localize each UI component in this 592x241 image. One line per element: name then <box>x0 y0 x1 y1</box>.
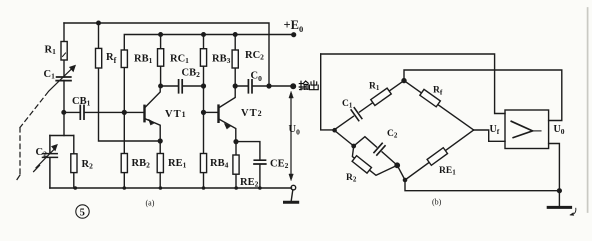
wire: bridge SW side lower (R2 branch) <box>352 146 397 175</box>
svg-text:RB2: RB2 <box>132 158 151 170</box>
ground (circuit a) <box>291 190 293 201</box>
svg-text:+E0: +E0 <box>284 18 304 34</box>
resistor Rf <box>96 48 102 68</box>
svg-text:RB4: RB4 <box>210 158 229 170</box>
arrow U0 (circuit a) <box>290 96 292 176</box>
svg-text:C1: C1 <box>342 99 353 110</box>
node: bridge top <box>402 79 406 83</box>
label 输出 output (drawn glyphs) <box>299 81 318 90</box>
resistor R1 (bridge) <box>371 88 391 105</box>
node: bridge bottom <box>403 178 406 181</box>
node: RC2 top <box>233 33 237 37</box>
node: CB2-RB3 junction <box>202 84 206 88</box>
svg-text:RB3: RB3 <box>212 54 231 66</box>
capacitor CB1 <box>80 106 84 120</box>
resistor Rf (bridge) <box>420 89 440 106</box>
node: VT2 base junction <box>202 111 206 115</box>
svg-text:RC2: RC2 <box>245 50 264 62</box>
wire: CB1 input line <box>64 111 144 113</box>
svg-text:Uf: Uf <box>490 124 500 136</box>
resistor R1 <box>61 42 67 61</box>
wire: RC1 collector branch <box>160 35 162 87</box>
wire: feedback top rail (circuit a) <box>64 23 269 85</box>
resistor RE2 <box>235 142 237 188</box>
capacitor CB2 <box>179 80 183 93</box>
svg-text:C1: C1 <box>44 69 56 81</box>
wire: RB3-RB4 chain <box>203 35 205 189</box>
svg-text:Rf: Rf <box>433 86 443 97</box>
wire: RC2 branch <box>234 35 236 87</box>
node: VT1 collector node <box>159 84 163 88</box>
wire: circuit b bottom rail <box>405 144 559 191</box>
node: bridge left <box>333 129 336 132</box>
capacitor C2 (bridge) <box>373 142 387 156</box>
svg-text:R2: R2 <box>346 173 357 184</box>
svg-text:C2: C2 <box>387 129 398 140</box>
node: R2C2 fork <box>352 144 355 147</box>
svg-text:Rf: Rf <box>106 52 117 65</box>
capacitor CE2 <box>236 142 260 188</box>
ground (circuit b) <box>558 191 560 207</box>
transistor VT2 <box>219 86 235 107</box>
resistor RC1 <box>158 49 164 66</box>
svg-text:C2: C2 <box>36 147 48 159</box>
svg-text:CB1: CB1 <box>72 96 91 108</box>
node: +E0 terminal <box>292 33 296 37</box>
svg-text:R1: R1 <box>369 82 380 93</box>
svg-text:U0: U0 <box>554 124 565 136</box>
resistor R2 (bridge) <box>352 156 371 173</box>
wire: bridge SW side upper (C2 branch) <box>334 130 397 165</box>
node: VT1 base junction <box>122 111 126 115</box>
node: RC1 top <box>159 33 163 37</box>
resistor RB1 <box>121 50 127 68</box>
wire: bridge NW side <box>334 81 404 130</box>
svg-text:CE2: CE2 <box>270 159 289 171</box>
svg-text:RE2: RE2 <box>240 177 259 189</box>
capacitor C1 (variable) <box>56 77 71 81</box>
transistor VT1 <box>145 86 160 107</box>
node: C1-C2 junction <box>62 111 66 115</box>
svg-text:RB1: RB1 <box>134 54 153 66</box>
node: Rf top junction <box>97 21 101 25</box>
node: bottom rail / op-amp junction <box>558 189 562 193</box>
svg-text:RC1: RC1 <box>170 54 189 66</box>
svg-text:CB2: CB2 <box>182 68 201 80</box>
wire: C0 output line <box>235 85 292 87</box>
label circled 5 <box>76 205 89 218</box>
svg-text:VT2: VT2 <box>241 108 263 119</box>
resistor RB2 <box>121 154 127 173</box>
resistor Rf branch <box>99 23 161 141</box>
wire: circuit b feedback line 2 from bridge top to op-amp output <box>404 70 562 121</box>
svg-text:5: 5 <box>80 207 85 218</box>
resistor RC2 <box>232 50 238 68</box>
wire: circuit b top line 1 to op-amp input <box>321 54 505 114</box>
resistor R2 <box>73 136 75 189</box>
dashed gang coupling C1-C2 <box>20 92 48 175</box>
node: VT2 collector node <box>233 84 237 88</box>
wire: R1 branch vertical <box>63 23 65 136</box>
capacitor C1 (bridge) <box>350 106 363 122</box>
node: VT2 emitter junction <box>234 140 238 144</box>
resistor RB3 <box>200 49 206 66</box>
wire: bridge NE side <box>404 81 474 130</box>
node: VT1 emitter / Rf junction <box>158 139 162 143</box>
capacitor C2 (variable) <box>43 136 58 189</box>
page edge artifact <box>587 8 589 212</box>
node: rail junctions <box>74 186 262 190</box>
node: RB3 top <box>202 33 206 37</box>
node: feedback tap junction <box>267 84 271 88</box>
svg-text:(b): (b) <box>432 198 442 207</box>
wire: bridge right node to op-amp Uf input <box>474 130 505 141</box>
svg-text:C0: C0 <box>251 71 263 84</box>
wire: to bridge bottom node <box>397 165 405 180</box>
svg-text:RE1: RE1 <box>168 158 187 170</box>
resistor RB4 <box>200 154 206 173</box>
wire: RB1-RB2 bias chain <box>123 50 125 188</box>
capacitor C0 <box>248 80 252 93</box>
resistor RE1 (bridge) <box>427 148 447 166</box>
resistor RE1 <box>157 154 163 173</box>
svg-text:VT1: VT1 <box>165 109 187 120</box>
wire: CB2 coupling line <box>161 85 204 87</box>
wire: circuit b left vertical from output <box>321 54 334 130</box>
op-amp U1 <box>505 110 549 149</box>
svg-text:U0: U0 <box>289 124 301 137</box>
wire: split to C2 and R2 <box>50 135 74 137</box>
wire: bridge SE side <box>405 130 474 180</box>
node: ground terminal circle <box>291 185 296 190</box>
svg-text:RE1: RE1 <box>439 166 456 177</box>
wire: VT2 base line <box>204 111 218 113</box>
node: output terminal <box>291 84 296 89</box>
wire: bottom ground rail (circuit a) <box>50 187 292 189</box>
svg-text:R1: R1 <box>45 45 57 57</box>
svg-text:(a): (a) <box>146 199 155 208</box>
svg-text:R2: R2 <box>82 159 94 171</box>
node: R2C2 rejoin <box>395 163 399 167</box>
wire: +E0 supply rail <box>124 35 293 51</box>
